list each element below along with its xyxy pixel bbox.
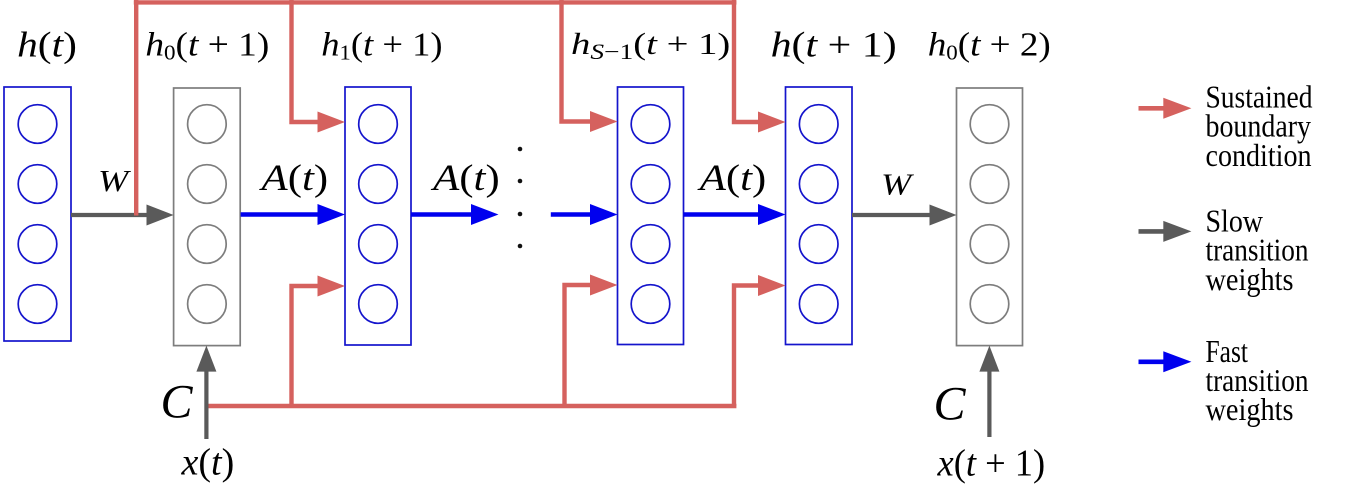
unit circle h1(t+1) 3 <box>359 225 398 264</box>
legend red arrowhead <box>1163 98 1191 119</box>
unit circle h0(t+2) 2 <box>970 165 1009 204</box>
svg-text:h(t): h(t) <box>17 25 77 65</box>
gray arrow C2 shaft <box>987 370 991 437</box>
unit circle h(t+1) 1 <box>799 105 838 144</box>
svg-text:C: C <box>161 376 194 429</box>
svg-text:weights: weights <box>1206 391 1294 427</box>
svg-text:A(t): A(t) <box>697 157 767 199</box>
unit circle h0(t+1) 3 <box>188 225 227 264</box>
gray arrow C1 shaft <box>204 370 208 439</box>
svg-text:h0(t + 2): h0(t + 2) <box>928 25 1051 64</box>
svg-text:C: C <box>934 377 967 430</box>
gray arrowhead C2 <box>979 346 999 372</box>
unit circle hS-1(t+1) 2 <box>631 165 670 204</box>
unit circle h0(t+2) 4 <box>970 285 1009 324</box>
svg-text:x(t): x(t) <box>181 442 235 484</box>
red boundary wire: left vertical down to W arrow <box>134 0 138 216</box>
unit circle h(t+1) 3 <box>799 225 838 264</box>
unit circle h0(t+2) 3 <box>970 225 1009 264</box>
unit circle hS-1(t+1) 3 <box>631 225 670 264</box>
svg-text:condition: condition <box>1206 137 1312 173</box>
unit circle h0(t+1) 2 <box>188 165 227 204</box>
legend blue arrow shaft <box>1139 359 1166 364</box>
red boundary wire: branch into h1(t+1) bottom <box>292 286 320 406</box>
unit circle h0(t+2) 1 <box>970 105 1009 144</box>
unit circle h0(t+1) 1 <box>188 105 227 144</box>
layer box h0(t+1) <box>174 88 241 346</box>
red boundary wire: right vertical + arrow into h(t+1) top <box>734 0 759 122</box>
unit circle h(t) 2 <box>18 165 57 204</box>
unit circle h(t) 1 <box>18 105 57 144</box>
red boundary wire: branch into hS-1(t+1) top <box>562 0 592 122</box>
blue arrowhead A(t) 4 <box>758 204 786 225</box>
layer box hS-1(t+1) <box>618 87 684 345</box>
gray arrowhead W1 <box>147 205 174 226</box>
unit circle h1(t+1) 1 <box>359 105 398 144</box>
gray arrowhead C1 <box>196 346 216 372</box>
legend gray arrowhead <box>1163 221 1191 242</box>
red boundary wire: branch into h1(t+1) top <box>292 0 320 122</box>
red arrowhead into hS-1(t+1) bottom <box>590 275 618 296</box>
unit circle hS-1(t+1) 1 <box>631 105 670 144</box>
blue arrow A(t) 2 shaft <box>411 212 472 217</box>
svg-text:h(t + 1): h(t + 1) <box>771 25 897 65</box>
layer box h(t+1) <box>786 87 853 345</box>
svg-text:W: W <box>881 168 914 202</box>
gray arrow W1 shaft <box>71 213 149 217</box>
layer box h1(t+1) <box>345 87 411 345</box>
blue arrowhead A(t) 2 <box>471 204 499 225</box>
unit circle h(t) 4 <box>18 285 57 324</box>
red arrowhead into h1(t+1) bottom <box>318 276 346 297</box>
blue arrowhead A(t) 3 <box>590 204 618 225</box>
blue arrow A(t) 3 shaft <box>551 212 592 217</box>
gray arrow W2 shaft <box>852 213 932 217</box>
blue arrowhead A(t) 1 <box>318 204 346 225</box>
svg-text:weights: weights <box>1206 261 1294 297</box>
svg-text:W: W <box>98 164 131 198</box>
red boundary wire: branch into hS-1(t+1) bottom <box>565 285 592 406</box>
unit circle h(t+1) 2 <box>799 165 838 204</box>
unit circle h1(t+1) 4 <box>359 285 398 324</box>
vdots between h1 and hS-1 <box>518 147 523 152</box>
blue arrow A(t) 4 shaft <box>684 212 761 217</box>
red arrowhead into hS-1(t+1) top <box>590 111 618 132</box>
unit circle h1(t+1) 2 <box>359 165 398 204</box>
red arrowhead into h1(t+1) top <box>318 112 346 133</box>
svg-text:x(t + 1): x(t + 1) <box>937 443 1046 485</box>
svg-text:A(t): A(t) <box>430 157 500 199</box>
svg-text:h0(t + 1): h0(t + 1) <box>145 25 269 64</box>
legend gray arrow shaft <box>1139 229 1166 234</box>
unit circle h(t) 3 <box>18 225 57 264</box>
red boundary wire: bottom horizontal <box>209 404 737 408</box>
unit circle hS-1(t+1) 4 <box>631 285 670 324</box>
svg-text:h1(t + 1): h1(t + 1) <box>321 26 442 65</box>
blue arrow A(t) 1 shaft <box>241 212 320 217</box>
layer box h(t) <box>4 87 71 341</box>
svg-text:A(t): A(t) <box>258 157 328 199</box>
red boundary wire: right vertical + arrow into h(t+1) bottom <box>734 286 759 407</box>
legend red arrow shaft <box>1139 106 1166 111</box>
red arrowhead into h(t+1) top <box>758 112 786 133</box>
layer box h0(t+2) <box>957 88 1023 346</box>
gray arrowhead W2 <box>930 205 957 226</box>
unit circle h0(t+1) 4 <box>188 285 227 324</box>
red boundary wire: top horizontal <box>134 0 737 4</box>
unit circle h(t+1) 4 <box>799 285 838 324</box>
red arrowhead into h(t+1) bottom <box>758 275 786 296</box>
legend blue arrowhead <box>1163 351 1191 372</box>
